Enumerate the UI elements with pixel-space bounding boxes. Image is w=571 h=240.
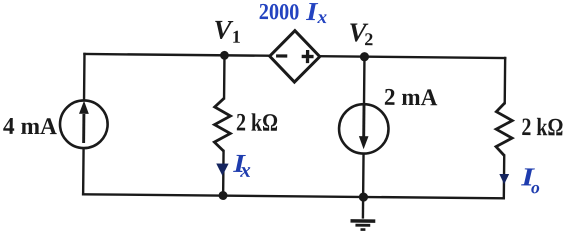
svg-text:1: 1	[232, 27, 241, 47]
svg-text:2 mA: 2 mA	[384, 85, 438, 112]
svg-text:x: x	[239, 158, 251, 182]
svg-text:4 mA: 4 mA	[3, 114, 58, 141]
svg-text:2000: 2000	[259, 0, 300, 24]
svg-text:x: x	[316, 7, 327, 28]
svg-text:2: 2	[364, 29, 373, 49]
svg-text:o: o	[531, 177, 540, 197]
svg-text:I: I	[305, 0, 318, 26]
svg-text:2 kΩ: 2 kΩ	[236, 109, 278, 136]
svg-text:2 kΩ: 2 kΩ	[521, 114, 563, 141]
svg-text:V: V	[213, 15, 233, 45]
